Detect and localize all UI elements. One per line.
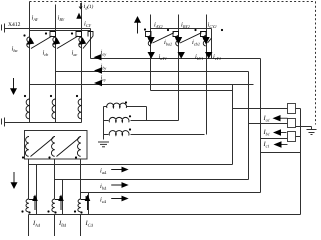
svg-text:ibY1: ibY1 xyxy=(195,54,203,62)
dot box coil 1 xyxy=(22,156,24,158)
wire: bottom line b xyxy=(55,179,249,181)
standalone up arrow mid xyxy=(134,16,141,23)
right arrow bottom line a xyxy=(122,167,129,173)
down diode group2 cell2 row1 xyxy=(175,37,182,45)
dashed boundary left (short) xyxy=(29,2,31,28)
dot g1c2b xyxy=(71,32,73,34)
right arrow bottom line c xyxy=(122,196,129,202)
upper coil A xyxy=(26,99,30,119)
wire: coil1 right link xyxy=(127,106,147,108)
delta box coil 3 xyxy=(77,136,81,156)
wire: leg B group1 above bus xyxy=(55,5,57,29)
wire: load return vertical xyxy=(300,109,302,215)
resistor R2 xyxy=(288,119,296,128)
wire: leg B group2 xyxy=(178,15,180,121)
wire: box output drops xyxy=(28,159,30,199)
standalone down arrow left lower xyxy=(11,182,18,189)
wire: R2 right / ground line xyxy=(296,126,312,128)
svg-text:iba2: iba2 xyxy=(164,39,172,47)
dot g1c1b xyxy=(45,32,47,34)
svg-text:Ia1: Ia1 xyxy=(263,115,270,123)
wire: wye common left xyxy=(103,107,105,140)
dot bottom cell 3b xyxy=(80,211,82,213)
svg-text:X412: X412 xyxy=(8,22,21,28)
svg-text:icy: icy xyxy=(101,74,107,82)
svg-text:Ic1: Ic1 xyxy=(263,141,270,149)
wire: leg A group1 above bus xyxy=(29,4,31,29)
svg-text:iBY: iBY xyxy=(58,15,65,23)
group2 cell 1 xyxy=(146,32,175,46)
svg-text:IBΔ: IBΔ xyxy=(58,220,67,228)
dot bottom cell 1b xyxy=(28,211,30,213)
standalone down arrow left upper xyxy=(10,88,17,95)
bottom cell hook 3 xyxy=(81,196,86,200)
down diode group2 cell1 row1 xyxy=(147,37,154,45)
wire: bottom bus xyxy=(29,214,301,216)
group1 cell 2 xyxy=(53,32,82,49)
wire: feed to load R3 xyxy=(261,138,288,140)
dot g2c1 xyxy=(144,28,146,30)
up arrow bottom cell 3 xyxy=(85,195,91,202)
left arrow load 3 xyxy=(274,141,282,147)
wire: link to load return xyxy=(261,152,301,154)
dot box coil 2 xyxy=(48,156,50,158)
wire: group1 box top xyxy=(30,30,91,32)
svg-text:iba: iba xyxy=(12,46,18,54)
battery B1 top-left xyxy=(2,24,5,33)
delta box coil 2 xyxy=(51,136,55,156)
wye ground xyxy=(98,142,109,147)
svg-text:icY1: icY1 xyxy=(213,54,221,62)
svg-text:icΔ: icΔ xyxy=(100,197,107,205)
wire: coil3 right link to leg C xyxy=(131,134,205,136)
wire: feed to load R2 xyxy=(249,123,288,125)
up arrow bottom cell 2 xyxy=(58,195,64,202)
bottom cell coil 1 xyxy=(26,199,29,212)
svg-text:iby: iby xyxy=(101,63,107,71)
dot g2c3b xyxy=(221,29,223,31)
delta box coil 1 xyxy=(25,136,29,156)
wire: leg A group1 down to coil xyxy=(29,29,31,123)
down arrow group2 leg3 row2 xyxy=(205,52,212,59)
down arrow group2 leg2 row2 xyxy=(178,52,185,59)
svg-text:ibΔ: ibΔ xyxy=(100,183,107,191)
wire: R1 right stub xyxy=(296,108,301,110)
bottom cell coil 2 xyxy=(52,199,55,212)
dot upper coil B xyxy=(50,95,52,97)
left arrow load 1 xyxy=(273,115,281,121)
delta box diagonal 2 xyxy=(57,138,80,157)
svg-text:Ib1: Ib1 xyxy=(263,129,270,137)
dot g2c2b xyxy=(194,29,196,31)
left arrow on line c xyxy=(94,80,102,86)
small arrow at i_d label xyxy=(79,3,82,9)
left arrow load 2 xyxy=(273,129,281,135)
bottom cell arrow columns xyxy=(36,165,38,215)
dot wye coil 3 xyxy=(129,128,131,130)
wire: leg C group2 xyxy=(206,15,208,135)
svg-text:icb2: icb2 xyxy=(192,39,200,47)
svg-text:iac: iac xyxy=(72,50,78,58)
upper coil C xyxy=(78,99,82,119)
wire: riser x146 xyxy=(146,107,148,121)
wye coil 1 xyxy=(107,103,127,108)
diode triangle group1 cell2 xyxy=(53,37,60,45)
dot g1c1 xyxy=(23,34,25,36)
svg-text:id(1): id(1) xyxy=(84,3,94,11)
svg-text:iBY2: iBY2 xyxy=(181,22,190,30)
up arrow on i_d leg xyxy=(76,13,81,19)
wire: AC line b xyxy=(56,71,249,73)
diode triangle group1 cell1 xyxy=(27,37,34,45)
node riser c x233 xyxy=(232,85,234,165)
wire: AC line a xyxy=(91,58,261,60)
wire: riser a x260.8 xyxy=(260,59,262,193)
up arrow bottom cell 1 xyxy=(32,195,38,202)
dot wye coil 1 xyxy=(125,101,127,103)
svg-text:iAY: iAY xyxy=(32,15,39,23)
wire: feed to load R1 xyxy=(233,108,288,110)
down arrow group2 leg1 row2 xyxy=(148,52,155,59)
svg-text:ICΔ: ICΔ xyxy=(85,220,94,228)
wire: leg C group1 (i_d line to border) xyxy=(81,3,83,29)
svg-text:iCY2: iCY2 xyxy=(208,22,217,30)
wire: bottom line a xyxy=(29,164,233,166)
dot bottom cell 1a xyxy=(21,210,23,212)
svg-text:icb: icb xyxy=(43,50,49,58)
wire: bottom line c xyxy=(81,192,261,194)
svg-text:iay: iay xyxy=(101,49,107,57)
wire: group2 right edge xyxy=(211,29,213,59)
dot box coil 3 xyxy=(75,156,77,158)
wire: leg A group2 to rect riser xyxy=(151,90,233,92)
dot bottom cell 2a xyxy=(47,210,49,212)
svg-text:iaY1: iaY1 xyxy=(159,54,167,62)
wire: group1 box right edge xyxy=(90,29,92,59)
left arrow on line b xyxy=(94,67,102,73)
bottom cell hook 1 xyxy=(29,196,34,200)
wye coil 3 xyxy=(109,131,129,136)
wire: leg A group2 xyxy=(150,15,152,91)
upper coil B xyxy=(52,99,56,119)
wire: leg C group1 down to coil xyxy=(81,29,83,123)
svg-text:iAY2: iAY2 xyxy=(154,22,163,30)
wire: AC line c xyxy=(30,84,254,86)
diode triangle group1 cell3 xyxy=(79,37,86,45)
group1 cell 1 xyxy=(27,32,56,49)
bottom cell hook 2 xyxy=(55,196,60,200)
dot bottom cell 2b xyxy=(54,211,56,213)
group2 cell 3 xyxy=(201,32,212,46)
wire: top bus from B1 xyxy=(5,28,91,30)
dashed boundary top xyxy=(30,1,316,3)
resistor R1 xyxy=(288,104,296,114)
svg-text:IAΔ: IAΔ xyxy=(32,220,41,228)
dot upper coil A xyxy=(24,95,26,97)
right arrow bottom line b xyxy=(122,182,129,188)
dot g2c1b xyxy=(167,29,169,31)
wire: coil2 right link to leg B xyxy=(131,120,179,122)
group1 cell 3 xyxy=(79,32,93,49)
dot wye coil 2 xyxy=(129,115,131,117)
wye coil 2 xyxy=(109,117,129,122)
svg-text:iaΔ: iaΔ xyxy=(100,168,107,176)
delta box outline xyxy=(25,131,88,160)
wire: riser b x248.6 xyxy=(248,72,250,180)
resistor R3 xyxy=(288,132,296,142)
battery B2 left middle xyxy=(2,118,5,127)
down diode group2 cell3 row1 xyxy=(202,37,209,45)
group2 cell 2 xyxy=(173,32,202,46)
dashed boundary right xyxy=(315,2,317,125)
bottom cell coil 3 xyxy=(78,199,81,212)
wire: leg B group1 down to coil xyxy=(55,29,57,123)
delta box diagonal 1 xyxy=(31,138,54,157)
dot bottom cell 3a xyxy=(74,210,76,212)
ground right xyxy=(307,127,317,135)
wire: battery B2 line xyxy=(5,122,82,124)
below-bus tails xyxy=(28,215,30,237)
dot upper coil C xyxy=(76,95,78,97)
left arrow on line a xyxy=(94,54,102,60)
svg-text:iCY: iCY xyxy=(84,21,92,29)
wire: R3 right stub xyxy=(296,136,301,138)
wire: group2 top bus xyxy=(151,28,212,30)
